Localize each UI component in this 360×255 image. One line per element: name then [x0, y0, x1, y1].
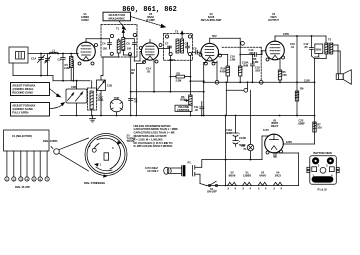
svg-text:.003: .003	[255, 68, 261, 72]
pilot lamp	[241, 144, 254, 161]
V3 grid capacitor C9	[192, 47, 201, 55]
T2 capacitor C8	[185, 42, 190, 54]
tube V1	[77, 39, 96, 61]
V3 right pin wire	[213, 55, 228, 85]
grid resistor column	[239, 55, 242, 84]
filter capacitor C13A	[226, 116, 241, 137]
svg-text:2.2M: 2.2M	[64, 66, 71, 70]
svg-text:C6: C6	[126, 42, 130, 46]
svg-text:C7: C7	[165, 42, 169, 46]
bus sub rail	[225, 81, 248, 115]
svg-text:50V: 50V	[212, 34, 217, 38]
svg-text:3.3M: 3.3M	[253, 60, 260, 64]
ground bus B-	[60, 115, 315, 117]
svg-text:B- WITH 20,000 Ω/VOLT METER.: B- WITH 20,000 Ω/VOLT METER.	[134, 144, 173, 148]
B+ vertical from rectifier	[313, 59, 322, 145]
svg-text:.05M: .05M	[242, 63, 249, 67]
svg-text:100: 100	[103, 46, 108, 50]
svg-text:C1A: C1A	[31, 57, 36, 61]
T2 secondary winding	[181, 39, 184, 53]
svg-text:DIAL STRINGING: DIAL STRINGING	[84, 181, 105, 185]
tube V2	[141, 40, 158, 61]
adjust arrow to gang	[50, 103, 65, 109]
IF transformer T1 box	[101, 25, 137, 58]
T2 capacitor C7	[165, 42, 172, 54]
T2 bottom wires	[169, 56, 191, 95]
switch SW1	[207, 181, 218, 193]
V3 bottom pin wires	[203, 61, 206, 116]
osc coil top view	[110, 96, 123, 117]
svg-text:50MF: 50MF	[239, 143, 246, 147]
svg-text:.02: .02	[194, 108, 198, 112]
tube V5	[265, 134, 284, 153]
chassis ground symbol	[90, 116, 96, 122]
adjust dashed arrow to T1	[119, 21, 126, 30]
pilot lamp feed wire	[250, 90, 252, 144]
notes text	[134, 124, 179, 148]
svg-text:ADJUST FOR MAX: ADJUST FOR MAX	[12, 104, 35, 108]
label 117V	[145, 166, 159, 173]
V2 cathode wires	[136, 59, 154, 116]
svg-text:ADJUST FOR MAX: ADJUST FOR MAX	[12, 84, 35, 88]
cathode resistor R5	[278, 59, 287, 83]
coupling path C10	[239, 38, 266, 56]
svg-text:100: 100	[127, 46, 132, 50]
svg-text:150: 150	[282, 73, 287, 77]
heater chain wire	[207, 153, 299, 187]
svg-text:1.2M: 1.2M	[230, 57, 237, 61]
tone capacitor C12 / bleeder R9	[290, 36, 304, 116]
terminal circles	[5, 177, 49, 181]
svg-text:135V: 135V	[283, 32, 289, 36]
svg-text:220: 220	[317, 125, 322, 129]
svg-text:CAPACITORS LESS THAN 1 = MF.: CAPACITORS LESS THAN 1 = MF.	[134, 131, 176, 135]
T2 pin circles	[165, 35, 191, 56]
trimmer C1A	[31, 53, 45, 77]
volume control box	[175, 105, 192, 112]
svg-text:6AV6: 6AV6	[259, 173, 266, 177]
svg-text:RESISTORS ARE 1/2 WATT.: RESISTORS ARE 1/2 WATT.	[134, 134, 168, 138]
wire antenna top lead	[28, 53, 77, 55]
dial cord pulley	[43, 139, 59, 154]
wire V3 plate	[210, 34, 245, 45]
svg-text:R2: R2	[177, 71, 181, 75]
tube V4	[266, 38, 285, 60]
svg-text:K = 1,000. M = 1,000,000.: K = 1,000. M = 1,000,000.	[134, 137, 164, 141]
speaker	[336, 70, 351, 85]
svg-text:470K: 470K	[220, 69, 226, 73]
capacitor column C18	[250, 54, 260, 84]
svg-text:DIAL CORD: DIAL CORD	[43, 139, 57, 143]
tube V3	[201, 38, 219, 61]
svg-text:117V: 117V	[263, 128, 269, 132]
T2 slug arrow	[181, 31, 183, 39]
svg-text:DC VOLTAGES @ 117V LINE TO: DC VOLTAGES @ 117V LINE TO	[134, 141, 174, 145]
svg-text:.05: .05	[134, 100, 138, 104]
wire detector rail	[190, 80, 204, 82]
svg-text:C1B: C1B	[107, 84, 112, 88]
adjust box 455KC	[103, 12, 131, 21]
V5 plate loop	[202, 136, 268, 160]
output transformer T3	[325, 38, 333, 55]
adjust box 1600KC	[11, 83, 50, 96]
tube pin circles	[78, 44, 285, 155]
svg-text:C9: C9	[193, 47, 197, 51]
T1 bottom wires	[103, 51, 141, 116]
B+ bus	[204, 81, 315, 83]
svg-text:CAPACITORS MORE THAN 1 = MMF.: CAPACITORS MORE THAN 1 = MMF.	[134, 127, 179, 131]
resistor R1	[64, 54, 73, 81]
svg-text:3000: 3000	[315, 48, 321, 52]
svg-text:ROCKING GANG: ROCKING GANG	[12, 91, 33, 95]
wire V1 plate to T1	[86, 38, 110, 40]
loop antenna	[9, 47, 28, 63]
oscillator coil L2	[88, 81, 105, 116]
svg-text:2.2M: 2.2M	[176, 78, 183, 82]
svg-text:UNLESS OTHERWISE NOTED:: UNLESS OTHERWISE NOTED:	[134, 124, 172, 128]
IF transformer T2 box	[164, 30, 193, 61]
svg-text:ADJUST FOR: ADJUST FOR	[108, 13, 125, 17]
svg-text:50C5: 50C5	[275, 173, 282, 177]
svg-text:FULLY OPEN: FULLY OPEN	[12, 111, 28, 115]
filter capacitor C13B	[233, 136, 246, 147]
misc value labels	[45, 46, 311, 143]
svg-text:CONTROL: CONTROL	[177, 108, 190, 112]
svg-text:.01: .01	[291, 45, 295, 49]
wire antenna bottom lead	[13, 63, 53, 76]
svg-text:TOP: TOP	[114, 96, 120, 100]
B- return vertical	[225, 116, 227, 186]
svg-text:BOTTOM VIEW: BOTTOM VIEW	[313, 151, 332, 155]
svg-text:C1 (SELECTOR): C1 (SELECTOR)	[12, 134, 32, 138]
svg-text:PL: PL	[244, 147, 248, 151]
capacitor C3	[58, 53, 66, 81]
svg-text:.02MF: .02MF	[298, 121, 306, 125]
rectifier output wire	[283, 140, 314, 144]
resistor column R4	[220, 55, 230, 83]
speaker wires	[333, 45, 340, 74]
svg-text:C4: C4	[102, 42, 106, 46]
T1 capacitor C4	[102, 39, 112, 49]
interlock P1	[188, 160, 202, 176]
AVC rail	[130, 91, 204, 93]
T1 secondary winding	[122, 37, 125, 51]
heater V1	[242, 171, 251, 191]
wire V2 plate to T2	[159, 47, 170, 49]
dashed AVC link	[222, 47, 263, 84]
T1 pin circles	[110, 33, 136, 55]
svg-text:500K: 500K	[180, 98, 186, 102]
svg-text:12BE6: 12BE6	[243, 173, 251, 177]
svg-text:@1600KC WHILE: @1600KC WHILE	[12, 87, 33, 91]
power wires to switch	[200, 174, 207, 185]
svg-text:125V: 125V	[286, 140, 292, 144]
adjust dashed arrow to T2	[131, 17, 166, 28]
trimmer C2A	[45, 54, 51, 76]
coil L1	[50, 48, 58, 53]
svg-text:R9: R9	[300, 87, 304, 91]
capacitor C11 on AC line	[194, 102, 204, 116]
svg-text:C2B: C2B	[71, 85, 76, 89]
wire osc node	[53, 61, 90, 82]
svg-text:DIAL PLATE: DIAL PLATE	[15, 185, 30, 189]
svg-text:TOTAL: TOTAL	[127, 139, 136, 143]
svg-text:30MF: 30MF	[226, 131, 233, 135]
wire V4 plate to T3	[275, 32, 326, 43]
svg-text:ON-OFF: ON-OFF	[207, 190, 217, 194]
T1 capacitor C6	[125, 39, 137, 54]
svg-text:115V: 115V	[304, 78, 310, 82]
svg-text:180V: 180V	[169, 58, 175, 62]
volume control R3	[180, 95, 192, 117]
filter resistor 3000	[315, 44, 327, 59]
capacitor C5	[129, 97, 138, 104]
dial stringing drum	[59, 134, 127, 178]
svg-text:C3: C3	[58, 58, 62, 62]
svg-text:.05: .05	[304, 45, 308, 49]
svg-text:6BA6: 6BA6	[229, 173, 236, 177]
tuning gang plate	[4, 130, 50, 177]
oscillator gang C2B	[66, 81, 87, 116]
adjust arrow to osc trimmer	[50, 89, 61, 97]
heater V4	[273, 171, 282, 191]
svg-text:C13B: C13B	[239, 136, 246, 140]
svg-text:P1 & J2: P1 & J2	[318, 187, 328, 191]
heater V2	[227, 171, 236, 191]
T1 primary winding	[117, 39, 120, 53]
T2 primary winding	[176, 39, 179, 53]
svg-text:.05: .05	[147, 69, 151, 73]
svg-text:AC ONLY: AC ONLY	[147, 169, 159, 173]
svg-text:@1620KC GANG: @1620KC GANG	[12, 107, 33, 111]
svg-text:C8: C8	[185, 42, 189, 46]
bottom view connector	[307, 151, 339, 184]
heater V3	[258, 171, 267, 191]
resistor R2	[170, 71, 192, 82]
T1 slug arrow	[122, 30, 124, 37]
trimmer C1B	[97, 76, 113, 117]
power plug	[164, 166, 185, 177]
tone capacitor C12	[304, 35, 315, 58]
adjust box 1620KC	[11, 103, 50, 117]
svg-text:MAX@455KC: MAX@455KC	[108, 16, 125, 20]
